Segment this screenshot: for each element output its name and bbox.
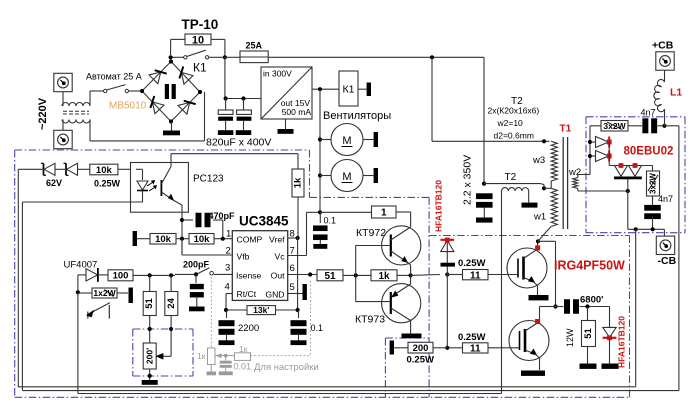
cathode tie wire [609, 142, 652, 166]
node rail fuse-left [223, 55, 227, 59]
svg-text:COMP: COMP [237, 235, 263, 245]
pot wiper arrow [157, 354, 172, 359]
wire rect left riser [578, 126, 590, 178]
svg-text:12W: 12W [565, 328, 575, 347]
ground under 0.1 Vref [291, 340, 307, 345]
ground under snubber diode [602, 364, 619, 369]
label out 15V [281, 98, 311, 108]
output-rectifier dash-dot border (top-right box) [586, 117, 685, 233]
label 4n7 bottom [658, 194, 673, 204]
wire zeners to 10k [78, 168, 90, 170]
label UC3845 [239, 214, 289, 229]
diode HFA16TB120 (upper boost) [441, 238, 455, 252]
capacitor C2 820uF [237, 99, 252, 131]
svg-text:11: 11 [470, 344, 481, 355]
label 820uF x 400V [206, 137, 271, 149]
svg-text:IRG4PF50W: IRG4PF50W [554, 259, 625, 273]
svg-text:80EBU02: 80EBU02 [624, 146, 674, 158]
wire X2 to choke [62, 120, 64, 131]
PC123 LED [136, 169, 148, 196]
node 51top [148, 273, 152, 277]
relay contact K1 [173, 50, 223, 59]
wire choke bottom to bridge right node [90, 92, 205, 141]
svg-text:Т1: Т1 [560, 124, 572, 135]
svg-text:Т2: Т2 [505, 172, 517, 183]
PC123 LED return wire [22, 196, 142, 202]
wire between 10k boxes [176, 238, 189, 240]
PC123 emitter drop [181, 212, 183, 255]
resistor 11 upper [447, 270, 518, 282]
transformer T1 core [563, 137, 567, 229]
label 80EBU02 [624, 146, 674, 158]
terminal bar T2 [522, 203, 538, 208]
svg-text:МВ5010: МВ5010 [109, 101, 147, 112]
fan motor M1 [320, 124, 378, 156]
rectifier diode D3 [615, 163, 628, 176]
label Автомат 25 А [86, 72, 142, 82]
resistor 24 vertical [165, 275, 178, 315]
gray resistor 1k horizontal [235, 344, 251, 360]
capacitor 4n7 bottom [644, 205, 661, 229]
node w3 top [542, 139, 546, 143]
svg-text:51: 51 [324, 271, 336, 282]
svg-text:10k: 10k [96, 165, 113, 176]
resistor 13k Rt [226, 305, 298, 315]
wire 10-box right leg [211, 39, 225, 57]
snubber 3x2W horizontal [590, 121, 642, 132]
bases tie wire [355, 246, 357, 302]
label w1 [533, 212, 546, 223]
bottom rail C [78, 393, 502, 395]
label 4n7 top [641, 108, 656, 118]
svg-text:4n7: 4n7 [658, 194, 673, 204]
terminal bar K1 [358, 83, 371, 97]
node minus/lineA [634, 227, 638, 231]
wire gate node riser [446, 241, 448, 348]
node Isense/200pF [194, 272, 198, 276]
transformer T1 winding w1 [551, 181, 557, 227]
svg-text:500 mA: 500 mA [282, 107, 312, 117]
choke T2 [502, 188, 529, 394]
wire w1 to VT1 collector [538, 227, 551, 242]
ground under VT1 [529, 295, 549, 300]
svg-text:1: 1 [226, 229, 231, 240]
pin2 Vfb wire [182, 239, 232, 255]
svg-text:w1: w1 [533, 212, 546, 223]
ground under converter [278, 129, 294, 134]
node 24top [169, 273, 173, 277]
IGBT-section dash-dot border (right box) [429, 236, 629, 398]
gray dotted link to Out [251, 281, 311, 356]
wire drop to 820uF rail [225, 57, 261, 98]
15V rail vertical [319, 89, 321, 212]
label 25A [246, 41, 263, 51]
svg-text:PC123: PC123 [193, 174, 224, 185]
transformer T1 winding w3 [551, 141, 557, 181]
wire mid row [540, 306, 556, 308]
label 2200 [238, 323, 259, 334]
gray arrow wire [215, 353, 235, 358]
svg-text:7: 7 [290, 246, 295, 257]
rectifier diode D1 80EBU02 [590, 137, 609, 148]
ground under bridge [163, 131, 180, 136]
gray ground 1 [207, 365, 217, 376]
svg-text:UF4007: UF4007 [64, 260, 98, 271]
label 500 mA [282, 107, 312, 117]
control-section dash-dot border (left box) [15, 150, 631, 397]
D3 D4 cathode bar [614, 177, 642, 180]
node pin4/2200 [224, 308, 228, 312]
resistor 10 (TP-10) [185, 34, 211, 46]
connector X1 ~220V top [54, 73, 72, 91]
node cap C2 top [241, 96, 245, 100]
node emitter/470pF [180, 218, 184, 222]
svg-text:6: 6 [290, 263, 295, 274]
svg-text:6800': 6800' [580, 295, 603, 306]
transistor KT972 [356, 212, 421, 275]
pin7 Vc wire [288, 212, 320, 255]
label 0.01 gray [234, 362, 252, 372]
label 0.25W lower [458, 332, 485, 343]
resistor 1k vertical (Vref pullup) [292, 169, 304, 197]
label 62V [46, 178, 62, 188]
gray resistor 1k vertical [197, 348, 215, 365]
label w2=10 [497, 118, 524, 128]
relay coil K1 box [339, 71, 358, 106]
svg-text:200': 200' [145, 348, 155, 364]
svg-text:2x(К20х16х6): 2x(К20х16х6) [488, 106, 540, 116]
node pot bottom [148, 374, 152, 378]
svg-text:К1: К1 [193, 61, 207, 75]
svg-text:-СВ: -СВ [658, 255, 677, 267]
wire Vcc node to 1ohm [320, 211, 372, 213]
gray cap 0.01 [219, 356, 233, 376]
zener VD1 62V [41, 163, 55, 175]
svg-text:25А: 25А [246, 41, 263, 51]
pin6 label [271, 263, 295, 281]
ground bar under C1 [218, 130, 234, 135]
wire converter out to rail [312, 88, 339, 90]
converter ground stub [285, 119, 287, 129]
wire rail drop x484 [483, 57, 485, 183]
resistor 51 vertical [143, 275, 156, 315]
wire junction to winding [544, 187, 551, 189]
svg-text:10: 10 [192, 34, 204, 46]
label 0.25W under 200 [407, 355, 434, 366]
capacitor 2200 Ct [219, 310, 235, 341]
svg-text:1: 1 [381, 208, 387, 219]
label 0.25W upper [458, 258, 485, 269]
node L1 bottom [662, 124, 666, 128]
wire 51 to bases node [343, 274, 371, 276]
pin7 label [274, 246, 294, 262]
label TP-10 [182, 17, 219, 32]
label 0.25W [94, 179, 121, 189]
label UF4007 [64, 260, 98, 271]
bar on gate riser [441, 263, 456, 267]
node 24/blue border [169, 327, 173, 331]
PC123 phototransistor [161, 163, 182, 213]
label 2x(K20x16x6) [488, 106, 540, 116]
IGBT VT1 upper IRG4PF50W [507, 241, 547, 295]
wire rail to zeners [18, 168, 42, 170]
svg-text:w2=10: w2=10 [497, 118, 524, 128]
node VT1 collector [536, 239, 540, 243]
svg-text:GND: GND [265, 290, 284, 300]
left sense rail A up [17, 169, 19, 387]
node 10k/10k/emitter [180, 237, 184, 241]
wire 200 to node [433, 347, 447, 349]
connector X2 ~220V bottom [54, 130, 72, 148]
node pin1/470pF [221, 237, 225, 241]
wire 10k to PC123 [118, 168, 131, 170]
optocoupler PC123 box [131, 163, 189, 213]
pin2 label [226, 246, 250, 262]
resistor 100 [108, 270, 133, 282]
svg-text:62V: 62V [46, 178, 62, 188]
pin3 Isense wire + test switch [175, 268, 232, 275]
resistor 10k (R upper2) [189, 234, 214, 246]
svg-text:HFA16TB120: HFA16TB120 [434, 180, 444, 232]
svg-text:4: 4 [225, 282, 230, 293]
potentiometer 200' [143, 343, 156, 369]
svg-text:Vfb: Vfb [237, 252, 250, 262]
svg-text:Out: Out [271, 271, 285, 281]
svg-text:Вентиляторы: Вентиляторы [323, 110, 391, 122]
label L1 [670, 87, 682, 99]
svg-text:К1: К1 [343, 84, 355, 96]
svg-text:Isense: Isense [236, 271, 262, 281]
pin3 label [225, 263, 262, 281]
svg-text:w2: w2 [568, 167, 581, 178]
svg-text:Vc: Vc [274, 252, 285, 262]
plus sense rail down [678, 126, 680, 391]
label 470pF [209, 211, 236, 221]
transistor KT973 [356, 275, 421, 333]
svg-text:М: М [342, 171, 351, 183]
label KT973 [355, 314, 385, 326]
ground under 200pF [189, 307, 205, 312]
svg-text:Автомат 25 А: Автомат 25 А [86, 72, 142, 82]
gray dotted link from Isense switch [210, 277, 212, 348]
svg-text:4n7: 4n7 [641, 108, 656, 118]
resistor 10k 0.25W [90, 164, 118, 176]
svg-text:2.2 x 350V: 2.2 x 350V [462, 155, 474, 205]
svg-text:0.25W: 0.25W [458, 332, 485, 343]
wire pot to ground [149, 369, 151, 380]
pin4 RtCt wire [226, 294, 232, 311]
capacitor 0.1 at Vcc [313, 212, 328, 244]
node bases [354, 273, 358, 277]
svg-text:10k: 10k [194, 234, 211, 245]
transformer T1 winding w2 [573, 178, 630, 194]
svg-text:М: М [342, 135, 351, 147]
svg-text:HFA16TB120: HFA16TB120 [617, 316, 627, 368]
wire 10k2 to COMP pin1 [214, 238, 232, 240]
wire 10-box left leg [171, 39, 185, 55]
svg-text:470pF: 470pF [209, 211, 236, 221]
label T2 block title [511, 96, 523, 107]
ground under 2200 [219, 340, 235, 345]
label 0.1 Vref [311, 323, 324, 333]
svg-text:10k: 10k [155, 234, 172, 245]
svg-text:51: 51 [144, 298, 155, 309]
node rail at x432 [430, 55, 434, 59]
label d2=0.6mm [494, 131, 534, 141]
capacitor 0.1 Vref [291, 310, 307, 341]
label Для настройки [254, 362, 319, 373]
svg-text:КТ972: КТ972 [356, 227, 386, 239]
node 13k/Vref [296, 308, 300, 312]
ground under KT973 [402, 334, 422, 339]
svg-text:24: 24 [166, 298, 177, 309]
capacitor C1 820uF [218, 99, 233, 131]
svg-text:3: 3 [225, 263, 230, 274]
svg-text:~220V: ~220V [37, 97, 49, 130]
wire PC123 collector up-right [171, 154, 298, 169]
left sense rail B [21, 202, 23, 391]
svg-text:200pF: 200pF [183, 260, 210, 270]
red dot VT2 collector [535, 319, 540, 324]
ground under pot [142, 380, 158, 385]
switch SA1 Автомат [104, 85, 129, 93]
output minus row [628, 229, 665, 237]
svg-text:ТР-10: ТР-10 [182, 17, 219, 32]
wire switch to bridge left node [129, 90, 143, 92]
wire 1k to emitters node [397, 274, 411, 276]
resistor 51 12W [565, 307, 596, 364]
svg-text:L1: L1 [670, 87, 682, 99]
node 1x2W left [76, 290, 80, 294]
node minus row end [0, 0, 1, 1]
pin4 label [225, 282, 257, 300]
label w2 [568, 167, 581, 178]
pin1 label [226, 229, 263, 245]
svg-text:0.25W: 0.25W [94, 179, 121, 189]
label T2 choke [505, 172, 517, 183]
shunt resistor 1x2W [78, 288, 117, 298]
wire rail drop x432 [432, 57, 550, 141]
wire UF4007 left leg [78, 275, 86, 292]
ground under 0.1 Vcc [313, 244, 327, 249]
zener VD2 62V [55, 163, 78, 175]
diode HFA16TB120 (snubber) [603, 307, 617, 364]
label IRG4PF50W [554, 259, 625, 273]
bridge diode D1 (left-top) [149, 70, 167, 83]
label HFA16TB120 right [617, 316, 627, 368]
svg-text:200: 200 [413, 343, 429, 354]
wire emitters to gate node [411, 274, 440, 277]
wire 1ohm to collector [396, 211, 411, 213]
node snubber R top [585, 304, 589, 308]
label 6800' [580, 295, 603, 306]
terminal bar 10k row [133, 231, 150, 246]
node M1 [318, 137, 322, 141]
label -CB [658, 255, 677, 267]
svg-text:UC3845: UC3845 [239, 214, 289, 229]
connector -CB [656, 236, 674, 254]
fan motor M2 [320, 160, 378, 192]
wire 1k to pin8 [297, 197, 299, 238]
main +300V rail wire [268, 56, 484, 58]
svg-text:0.25W: 0.25W [407, 355, 434, 366]
node Out [308, 272, 312, 276]
capacitor 6800 snubber [556, 299, 610, 314]
svg-text:+СВ: +СВ [652, 40, 674, 52]
PC123 LED arrows [147, 181, 157, 192]
node 2.2cap top [482, 182, 486, 186]
label HFA16TB120 left [434, 180, 444, 232]
svg-text:0.1: 0.1 [311, 323, 324, 333]
node pin8 [296, 236, 300, 240]
node minus/4n7 [651, 227, 655, 231]
capacitor 4n7 top [642, 118, 664, 133]
node 51/blue border [148, 327, 152, 331]
label w3 [532, 155, 545, 166]
wire bridge top to node [170, 57, 172, 61]
svg-text:w3: w3 [532, 155, 545, 166]
svg-text:100: 100 [113, 271, 129, 282]
svg-text:13k': 13k' [253, 305, 269, 315]
label +CB [652, 40, 674, 52]
IC UC3845 box [232, 231, 287, 301]
pin5 GND bar [288, 284, 307, 300]
wire collector node right [538, 241, 556, 306]
bridge diode D4 (bottom-right) [178, 101, 196, 114]
wire D3D4 to minus row [627, 179, 629, 229]
label 0.1 Vcc [324, 216, 337, 226]
pin8 label [269, 229, 295, 245]
node gate-lower row [445, 346, 449, 350]
node rect D1 anode [588, 140, 592, 144]
Vref riser wire [297, 238, 299, 310]
node gate-upper row [445, 272, 449, 276]
label T1 [560, 124, 572, 135]
red dot VT1 collector [535, 245, 540, 250]
resistor 10k (R upper1) [150, 234, 176, 246]
wire X1 to choke [62, 92, 64, 106]
DC-DC converter box [261, 67, 312, 119]
wire 24 down [170, 316, 172, 357]
wire L1 node to +CB rail [665, 125, 679, 127]
node main rail left [169, 55, 173, 59]
wire node to fuse [225, 56, 240, 58]
common-mode choke L-filter [62, 103, 90, 124]
label ~220V [37, 97, 49, 130]
svg-text:1k: 1k [378, 271, 390, 282]
svg-text:1k: 1k [293, 177, 304, 188]
label MB5010 [109, 101, 147, 112]
node emitters [409, 273, 413, 277]
label in 300V [263, 69, 292, 79]
svg-text:Rt/Ct: Rt/Ct [237, 289, 257, 299]
label PC123 [193, 174, 224, 185]
node cap C1 top [224, 96, 228, 100]
pin5 label [265, 282, 294, 300]
svg-text:Для настройки: Для настройки [254, 362, 319, 373]
svg-text:0.25W: 0.25W [458, 258, 485, 269]
bridge node dots [140, 59, 202, 123]
svg-text:Vref: Vref [269, 235, 285, 245]
svg-text:1к: 1к [239, 344, 248, 354]
ground under VT2 [521, 371, 545, 376]
svg-text:КТ973: КТ973 [355, 314, 385, 326]
bridge diode D3 (bottom-left) [150, 96, 164, 114]
ground under 51 12W [580, 364, 597, 369]
wire to w1 junction [484, 184, 544, 189]
svg-text:in 300V: in 300V [263, 69, 292, 79]
inductor L1 [654, 69, 665, 126]
